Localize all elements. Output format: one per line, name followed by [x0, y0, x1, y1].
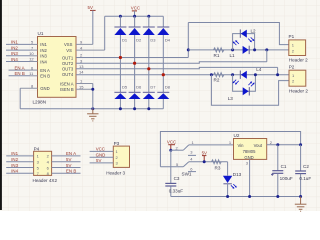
LED L4 (points left, on main line): [240, 67, 261, 79]
net label IN2: [11, 45, 18, 50]
net label EN B (P4): [66, 169, 76, 174]
net label IN4 (P4): [11, 169, 18, 174]
LED D13 emission arrows: [231, 184, 237, 189]
svg-text:IN4: IN4: [11, 169, 18, 174]
U1 pin 5 stub (IN1): [30, 43, 38, 45]
svg-text:5V: 5V: [202, 150, 207, 155]
svg-text:L2: L2: [251, 29, 257, 34]
wire OUT1: [76, 57, 188, 59]
power port 5V (top left): [88, 5, 96, 10]
wire P4 EN B: [52, 172, 81, 174]
U1 pin 7 stub (IN2): [30, 49, 38, 51]
wire regulator ground rail: [171, 196, 301, 198]
svg-text:Header 4X2: Header 4X2: [33, 178, 58, 183]
wire P1 top loop: [188, 23, 289, 45]
svg-text:P3: P3: [114, 141, 120, 146]
power port VCC (switch input): [167, 140, 176, 151]
node rail / C1: [276, 195, 279, 198]
node OUT4 / D4 column: [162, 73, 165, 76]
svg-text:U2: U2: [234, 133, 240, 138]
diode D2: [129, 27, 142, 43]
LED L3 (points right, on lower edge): [228, 87, 250, 101]
node ground rail / ISEN column: [91, 107, 94, 110]
net label 5V (P4 pin4): [66, 157, 71, 162]
U1 pin number 14 (OUT4): [79, 70, 84, 75]
P4 pin number 8: [47, 171, 50, 176]
wire LED L2 bypass box: [233, 34, 255, 50]
wire D7 anode to ground rail: [148, 99, 150, 109]
node rail / D13: [226, 195, 229, 198]
node VCC rail / D2 column and VCC port: [133, 15, 136, 18]
node motor B / LED box left: [231, 73, 234, 76]
U1 pin number 3 (OUT2): [80, 58, 83, 63]
U1 pin name EN A: [40, 68, 50, 73]
U1 pin 12 stub (IN4): [30, 61, 38, 63]
node rail / U2 GND: [248, 195, 251, 198]
wire LED L3 bypass box: [233, 75, 256, 92]
LED L1 (points right, on main line): [230, 46, 250, 59]
net label EN A: [15, 65, 25, 70]
LED L4 emission arrows: [233, 80, 239, 85]
U2 pin number 1: [229, 140, 232, 145]
wire OUT1 riser to motor A line: [187, 23, 189, 58]
node P2 pin1 / OUT3: [276, 73, 279, 76]
node motor A line left: [187, 48, 190, 51]
P4 pin number 7: [37, 171, 40, 176]
wire D4 column middle: [162, 35, 164, 92]
net label 5V (P4 pin6): [66, 163, 71, 168]
svg-text:5V: 5V: [66, 163, 71, 168]
node ground rail / D6: [133, 107, 136, 110]
svg-text:VSS: VSS: [64, 42, 73, 47]
P4 pin number 2: [47, 154, 50, 159]
svg-text:0.33uF: 0.33uF: [169, 188, 183, 193]
node Vout / C1: [276, 143, 279, 146]
connector P4: [34, 146, 52, 175]
U1 reference designator: [38, 31, 44, 36]
svg-text:VCC: VCC: [131, 6, 140, 11]
U1 pin number 5: [31, 40, 34, 45]
svg-text:13: 13: [79, 64, 84, 69]
node ISEN B junction: [91, 88, 94, 91]
wire D3 column middle: [148, 35, 150, 92]
diode D3: [143, 27, 156, 43]
wire P3 5V: [90, 162, 114, 164]
node motor A / LED box right: [253, 48, 256, 51]
svg-text:VCC: VCC: [167, 140, 176, 145]
node motor A / OUT2 riser: [265, 48, 268, 51]
net label EN B: [15, 71, 25, 76]
node VCC rail / D3 column: [147, 15, 150, 18]
svg-text:P2: P2: [289, 64, 295, 69]
svg-text:ISEN B: ISEN B: [60, 87, 74, 92]
U1 pin number 7: [31, 45, 34, 50]
wire P4 IN4: [6, 172, 33, 174]
svg-text:ISEN A: ISEN A: [60, 81, 74, 86]
wire D8 anode to ground rail: [162, 99, 164, 109]
net label VCC (P3): [96, 147, 105, 152]
LED L2 (points left, on top edge): [240, 29, 256, 38]
U1 pin number 2 (OUT1): [80, 53, 83, 58]
power port VCC (top): [131, 6, 140, 11]
U1 pin 4 stub (VS): [76, 49, 105, 51]
svg-text:GND: GND: [96, 153, 106, 158]
svg-text:D1: D1: [122, 38, 128, 43]
svg-text:SW1: SW1: [182, 172, 192, 177]
net label IN3: [11, 51, 18, 56]
P3 pin number 1: [116, 149, 119, 154]
wire P4 EN A: [52, 155, 81, 157]
wire GND pin to ground rail: [19, 88, 21, 109]
net label IN2 (P4): [11, 157, 18, 162]
switch SW1 throw pin 6 stub: [188, 167, 196, 172]
wire D5 anode to ground rail: [119, 99, 121, 109]
diode D5: [114, 85, 127, 99]
U1 pin 10 stub (IN3): [30, 55, 38, 57]
LED L2 emission arrows: [248, 37, 254, 42]
wire VS to VCC rail: [104, 16, 106, 50]
node VCC rail / D1 column: [119, 15, 122, 18]
capacitor C2: [295, 145, 311, 197]
P4 pin number 4: [47, 160, 50, 165]
SW1 reference designator: [182, 172, 192, 177]
switch SW1 section B pole stub (pin 5): [160, 162, 183, 167]
svg-text:Header 2: Header 2: [289, 88, 308, 93]
wire OUT2: [76, 62, 267, 63]
wire regulator top loop (Vout to switch pole B): [160, 132, 300, 167]
switch SW1 throw pin 3 stub: [188, 150, 196, 156]
sheet left border: [0, 0, 2, 210]
wire IN3: [6, 55, 30, 57]
wire VCC rail: [105, 15, 164, 17]
wire U2 Vout: [267, 144, 301, 146]
svg-text:D13: D13: [233, 172, 242, 177]
wire P3 VCC: [90, 150, 114, 152]
svg-text:C2: C2: [303, 164, 309, 169]
resistor R1: [214, 48, 224, 58]
node VCC / SW1 pole A / C3: [169, 149, 172, 152]
svg-text:L3: L3: [228, 96, 234, 101]
svg-text:OUT4: OUT4: [62, 72, 74, 77]
P3 pin number 2: [116, 155, 119, 160]
voltage regulator U2 78M05: [234, 133, 267, 160]
svg-text:EN A: EN A: [66, 151, 76, 156]
svg-text:OUT1: OUT1: [62, 55, 74, 60]
svg-text:10: 10: [29, 51, 34, 56]
wire EN B: [9, 75, 30, 77]
svg-text:5V: 5V: [96, 158, 101, 163]
svg-text:GND: GND: [40, 86, 49, 91]
U1 pin name OUT2: [62, 61, 74, 66]
wire D4 column upper: [162, 16, 164, 27]
wire IN1: [6, 43, 30, 45]
svg-text:P4: P4: [34, 146, 40, 151]
net label IN4: [11, 57, 18, 62]
svg-text:100uF: 100uF: [280, 176, 293, 181]
node OUT3 / D3 column: [147, 67, 150, 70]
wire OUT4 / motor B main line: [76, 74, 289, 76]
node ground rail / D7: [147, 107, 150, 110]
node ground rail / D5: [119, 107, 122, 110]
svg-text:5V: 5V: [88, 5, 93, 10]
U1 pin name OUT3: [62, 67, 74, 72]
svg-text:OUT2: OUT2: [62, 61, 74, 66]
U1 pin 1 stub (ISEN A): [76, 83, 93, 85]
U1 pin number 10: [29, 51, 34, 56]
switch SW1 section A blade: [183, 145, 189, 150]
svg-text:EN B: EN B: [40, 74, 50, 79]
U1 pin number 13 (OUT3): [79, 64, 84, 69]
wire P3 GND: [90, 156, 114, 158]
node OUT1 / D1 column: [119, 56, 122, 59]
wire ground rail: [20, 108, 163, 110]
wire P4 5V pin6: [52, 167, 81, 169]
svg-text:R3: R3: [215, 166, 221, 171]
U1 pin name OUT1: [62, 55, 74, 60]
svg-text:P1: P1: [289, 34, 295, 39]
wire motor A main line: [188, 49, 289, 51]
svg-text:L4: L4: [256, 67, 262, 72]
U1 pin name OUT4: [62, 72, 74, 77]
U1 pin name IN4: [40, 59, 47, 64]
diode D8: [157, 85, 170, 99]
resistor R2: [214, 73, 224, 83]
svg-text:15: 15: [79, 84, 84, 89]
wire IN4: [6, 61, 30, 63]
wire OUT3 drop to P2 pin1: [277, 67, 279, 74]
wire P4 IN3: [6, 167, 33, 169]
svg-text:D8: D8: [165, 85, 171, 90]
power port 5V (regulator section): [202, 150, 207, 161]
svg-text:D7: D7: [150, 85, 156, 90]
diode D1: [114, 27, 127, 43]
svg-text:D5: D5: [122, 85, 128, 90]
svg-text:C1: C1: [281, 164, 287, 169]
node motor A / LED box left: [231, 48, 234, 51]
svg-text:Vin: Vin: [238, 143, 245, 148]
wire P4 IN2: [6, 161, 33, 163]
node motor B / LED box right: [254, 73, 257, 76]
wire VCC port stub: [134, 11, 136, 16]
P4 value label: [33, 178, 58, 183]
wire OUT3: [76, 67, 278, 68]
svg-text:R1: R1: [214, 53, 220, 58]
svg-text:78M05: 78M05: [243, 149, 256, 154]
wire 5V to VSS: [92, 10, 94, 44]
svg-text:IN3: IN3: [40, 54, 47, 59]
svg-text:EN A: EN A: [40, 68, 50, 73]
U1 pin name IN2: [40, 48, 47, 53]
switch SW1 throw pin 1 wire to U2 Vin: [189, 140, 234, 145]
svg-text:IN1: IN1: [40, 42, 47, 47]
U1 pin name GND: [40, 86, 49, 91]
svg-text:IN2: IN2: [40, 48, 47, 53]
svg-text:L1: L1: [230, 53, 236, 58]
LED D13 (points down): [223, 172, 242, 184]
capacitor C1 (electrolytic 100uF): [271, 145, 293, 197]
wire D1 column upper: [119, 16, 121, 27]
U1 pin number 1: [80, 79, 83, 84]
ground symbol (regulator): [295, 197, 307, 212]
U1 pin number 8: [31, 83, 34, 88]
U1 value label L298N: [33, 100, 47, 105]
U1 pin number 6: [31, 65, 34, 70]
svg-text:IN3: IN3: [11, 163, 18, 168]
svg-text:L298N: L298N: [33, 100, 47, 105]
wire R3 to LED D13: [227, 162, 229, 176]
U1 pin name VS: [66, 48, 72, 53]
svg-text:Header 2: Header 2: [289, 58, 308, 63]
wire D3 column upper: [148, 16, 150, 27]
connector P3: [113, 141, 129, 167]
U1 pin name ISEN A: [60, 81, 74, 86]
U1 pin 15 stub (ISEN B): [76, 88, 93, 90]
U1 pin number 12: [29, 57, 34, 62]
wire IN2: [6, 49, 30, 51]
wire D6 anode to ground rail: [134, 99, 136, 109]
switch SW1 section A pole stub (pin 2): [171, 145, 184, 150]
svg-text:5V: 5V: [66, 157, 71, 162]
ground symbol (power ground below U1): [87, 109, 98, 121]
wire D13 cathode to ground rail: [227, 184, 229, 197]
connector P2: [289, 64, 309, 93]
svg-text:IN1: IN1: [11, 151, 18, 156]
svg-text:C3: C3: [174, 176, 180, 181]
P3 pin number 3: [116, 161, 119, 166]
wire P4 5V pin4: [52, 161, 81, 163]
svg-text:D6: D6: [136, 85, 142, 90]
P4 pin number 3: [37, 160, 40, 165]
wire P2 bottom loop: [211, 75, 289, 106]
connector P1: [289, 34, 309, 63]
U1 pin name ISEN B: [60, 87, 74, 92]
svg-text:Vout: Vout: [254, 143, 263, 148]
U1 pin name IN3: [40, 54, 47, 59]
svg-text:VS: VS: [66, 48, 72, 53]
diode D4: [157, 27, 170, 43]
net label IN1: [11, 40, 18, 45]
net label IN3 (P4): [11, 163, 18, 168]
wire ISEN A/B to ground rail: [92, 84, 94, 109]
U1 pin name EN B: [40, 74, 50, 79]
svg-text:12: 12: [29, 57, 34, 62]
svg-text:R2: R2: [214, 78, 220, 83]
switch SW1 section B blade: [183, 162, 189, 167]
P4 pin number 1: [37, 154, 40, 159]
U1 pin number 9: [80, 40, 83, 45]
wire D2 column middle: [134, 35, 136, 92]
svg-text:EN B: EN B: [66, 169, 76, 174]
U1 pin name VSS: [64, 42, 73, 47]
wire D1 anode to OUT1 and down across: [119, 35, 121, 92]
svg-text:U1: U1: [38, 31, 44, 36]
node rail / C2 and ground: [299, 195, 302, 198]
U1 pin 8 stub (GND): [20, 87, 37, 89]
U1 pin 6 stub (EN A): [30, 69, 38, 71]
P4 pin number 5: [37, 165, 40, 170]
diode D6: [129, 85, 142, 99]
U2 pin number 2: [270, 140, 273, 145]
net label EN A (P4): [66, 151, 76, 156]
wire U2 GND to ground rail: [249, 159, 251, 196]
LED L3 emission arrows: [248, 81, 254, 86]
wire D2 column upper: [134, 16, 136, 27]
resistor R3: [212, 160, 222, 171]
svg-text:0.1uF: 0.1uF: [299, 176, 311, 181]
op-amp U1 (L298N driver IC body): [38, 37, 77, 98]
svg-text:OUT3: OUT3: [62, 67, 74, 72]
svg-text:GND: GND: [244, 155, 253, 160]
net label 5V (P3): [96, 158, 101, 163]
capacitor C3: [165, 150, 183, 196]
diode D7: [143, 85, 156, 99]
LED L1 emission arrows: [233, 40, 239, 45]
net label GND (P3): [96, 153, 106, 158]
svg-text:D3: D3: [150, 38, 156, 43]
node motor B line left / loop drop: [210, 73, 213, 76]
wire OUT2 riser: [266, 50, 268, 62]
node 5V / R3 line: [203, 160, 206, 163]
U1 pin name IN1: [40, 42, 47, 47]
wire P4 IN1: [6, 155, 33, 157]
net label IN1 (P4): [11, 151, 18, 156]
svg-text:IN2: IN2: [11, 157, 18, 162]
svg-text:D4: D4: [165, 38, 171, 43]
P3 value label: [106, 171, 125, 176]
svg-text:D2: D2: [136, 38, 142, 43]
U1 pin 11 stub (EN B): [30, 75, 38, 77]
svg-text:VCC: VCC: [96, 147, 105, 152]
svg-text:IN4: IN4: [40, 59, 47, 64]
node Vout / right loop: [299, 143, 302, 146]
U1 pin number 4: [80, 45, 83, 50]
U2 pin number 3: [246, 161, 249, 166]
P4 pin number 6: [47, 165, 50, 170]
U1 pin 9 stub (VSS): [76, 43, 93, 45]
svg-text:Header 3: Header 3: [106, 171, 125, 176]
U1 pin number 11: [29, 71, 34, 76]
wire EN A: [9, 69, 30, 71]
node OUT2 / D2 column: [133, 62, 136, 65]
U1 pin number 15: [79, 84, 84, 89]
svg-text:14: 14: [79, 70, 84, 75]
switch SW1 throw pin 4 wire: [189, 157, 228, 162]
